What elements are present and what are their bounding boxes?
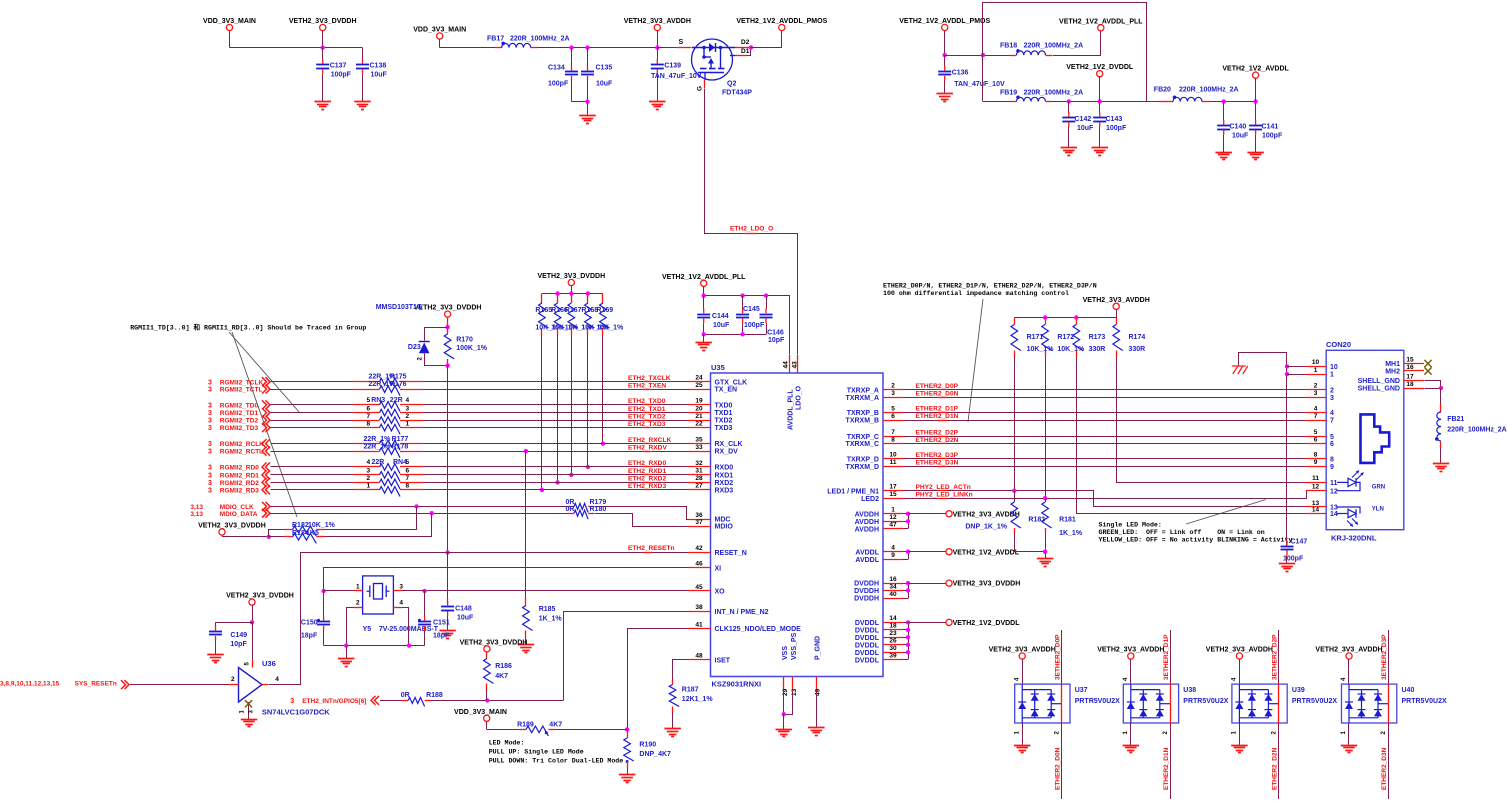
node junction — [1067, 99, 1071, 103]
pin 30 DVDDL — [883, 652, 903, 654]
svg-text:3: 3 — [891, 390, 895, 397]
pin 40 DVDDH — [883, 598, 903, 600]
svg-text:ETHER2_D3N: ETHER2_D3N — [1381, 747, 1388, 790]
svg-text:ETH2_RXD3: ETH2_RXD3 — [628, 483, 666, 490]
svg-text:RGMII1_TD[3..0] 和 RGMII1_RD[3.: RGMII1_TD[3..0] 和 RGMII1_RD[3..0] Should… — [130, 323, 366, 332]
wire — [423, 412, 689, 414]
pin 39 DVDDL — [883, 659, 903, 661]
svg-text:14: 14 — [1312, 506, 1320, 513]
resistor R173 — [1076, 318, 1078, 325]
svg-text:9: 9 — [1314, 459, 1318, 466]
svg-text:2: 2 — [1330, 388, 1334, 395]
resistor R171 — [1014, 318, 1016, 325]
power port VETH2_3V3_DVDDH (reset pullup) — [445, 311, 451, 317]
svg-text:45: 45 — [695, 584, 703, 591]
pin 25 TX_EN — [689, 389, 711, 391]
wire — [538, 47, 658, 49]
pin 6 — [1306, 443, 1326, 445]
svg-text:C148: C148 — [455, 606, 472, 613]
svg-text:RGMII2_RD0: RGMII2_RD0 — [220, 465, 259, 472]
svg-text:3,13: 3,13 — [190, 511, 203, 518]
svg-text:RXD0: RXD0 — [715, 465, 734, 472]
svg-text:220R_100MHz_2A: 220R_100MHz_2A — [1447, 427, 1507, 434]
node junction — [569, 291, 573, 295]
pin 18 DVDDL — [883, 629, 903, 631]
capacitor C151 — [424, 591, 426, 617]
wire PHY2_LED_ACTn — [903, 490, 1014, 492]
svg-text:4K7: 4K7 — [549, 722, 562, 729]
svg-text:8: 8 — [891, 436, 895, 443]
svg-text:3: 3 — [208, 449, 212, 456]
power port VETH2_1V2_AVDDL_PMOS — [779, 24, 785, 30]
svg-text:TXRXP_A: TXRXP_A — [847, 388, 879, 395]
power port VETH2_3V3_DVDDH (R186) — [484, 646, 490, 652]
wire — [271, 482, 354, 484]
resistor R183 DNP — [1014, 491, 1016, 502]
svg-text:VDD_3V3_MAIN: VDD_3V3_MAIN — [413, 27, 466, 34]
svg-text:3: 3 — [1314, 390, 1318, 397]
svg-text:3: 3 — [208, 465, 212, 472]
ground — [776, 729, 793, 731]
wire R174 down to CON pin11 — [1117, 358, 1307, 483]
svg-text:ETHER2_D2P: ETHER2_D2P — [916, 429, 959, 436]
pin 9 — [1306, 466, 1326, 468]
wire ETHER2_D2N — [903, 443, 1306, 445]
power VETH2_3V3_AVDDH — [908, 513, 946, 515]
wire — [1052, 101, 1159, 103]
resistor (RGMII2_RD3) — [380, 487, 400, 497]
ground — [241, 719, 258, 721]
svg-text:RGMII2_RD2: RGMII2_RD2 — [220, 480, 259, 487]
ground — [808, 727, 825, 729]
pin 26 DVDDL — [883, 644, 903, 646]
svg-text:10uF: 10uF — [1077, 125, 1094, 132]
pin 1 — [324, 590, 354, 592]
pin 37 MDIO — [689, 526, 711, 528]
capacitor C142 — [1068, 102, 1070, 113]
pin 13 — [1306, 506, 1326, 508]
wire MDIO_DATA — [271, 513, 569, 515]
svg-text:3ETHER2_D3P: 3ETHER2_D3P — [1381, 634, 1388, 680]
svg-text:PRTR5V0U2X: PRTR5V0U2X — [1402, 698, 1447, 705]
wire con pin10 — [1287, 366, 1306, 368]
svg-text:100pF: 100pF — [331, 72, 352, 79]
wire — [602, 335, 604, 444]
node junction — [1098, 99, 1102, 103]
svg-text:GTX_CLK: GTX_CLK — [715, 379, 748, 386]
pin 1 AVDDH — [883, 513, 903, 515]
svg-text:C135: C135 — [596, 64, 613, 71]
capacitor — [1281, 546, 1294, 548]
capacitor — [317, 621, 330, 623]
wire — [222, 536, 269, 538]
power port VETH2_3V3_AVDDH (U40) — [1346, 653, 1352, 659]
svg-text:100pF: 100pF — [1106, 125, 1127, 132]
ferrite bead FB20 — [1146, 101, 1159, 103]
wire — [325, 507, 417, 530]
pin 12 — [1306, 490, 1326, 492]
svg-text:LED1 / PME_N1: LED1 / PME_N1 — [827, 488, 879, 495]
svg-text:PRTR5V0U2X: PRTR5V0U2X — [1183, 698, 1228, 705]
wire — [1348, 659, 1350, 684]
pin 34 DVDDH — [883, 590, 903, 592]
wire — [555, 729, 627, 731]
pin 10 TXRXP_D — [883, 458, 903, 460]
wire — [423, 381, 689, 383]
capacitor — [1249, 125, 1262, 127]
svg-text:2: 2 — [1314, 383, 1318, 390]
svg-text:100pF: 100pF — [548, 81, 569, 88]
svg-text:KSZ9031RNXI: KSZ9031RNXI — [712, 680, 762, 689]
svg-text:RGMII2_TCTL: RGMII2_TCTL — [220, 387, 263, 394]
svg-text:GREEN_LED: OFF = Link off: GREEN_LED: OFF = Link off ON = Link on — [1099, 529, 1265, 536]
diode array U39 PRTR5V0U2X — [1232, 684, 1287, 723]
svg-text:21: 21 — [695, 413, 703, 420]
svg-text:ETHER2_D3N: ETHER2_D3N — [916, 460, 959, 467]
pin 27 RXD3 — [689, 489, 711, 491]
pin 10 — [1306, 366, 1326, 368]
svg-text:4: 4 — [1330, 410, 1334, 417]
svg-text:4: 4 — [367, 459, 371, 466]
wire — [271, 451, 354, 453]
resistor R181 — [1045, 498, 1047, 502]
capacitor — [418, 621, 431, 623]
svg-text:8: 8 — [406, 482, 410, 489]
svg-text:C137: C137 — [330, 63, 347, 70]
svg-text:S: S — [679, 39, 684, 46]
pin 18 SHELL_GND — [1404, 388, 1424, 390]
wire io line — [1170, 630, 1172, 684]
node junction — [702, 332, 706, 336]
power port VETH2_3V3_DVDDH (u36) — [249, 599, 255, 605]
pin 47 AVDDH — [883, 528, 903, 530]
node junction — [625, 727, 629, 731]
capacitor — [1217, 125, 1230, 127]
svg-text:100pF: 100pF — [1262, 133, 1283, 140]
svg-text:11: 11 — [890, 459, 897, 466]
chassis ground — [1232, 365, 1246, 367]
wire — [230, 47, 363, 49]
pin 9 AVDDL — [883, 559, 903, 561]
wire — [425, 354, 448, 366]
ground — [1231, 745, 1248, 747]
svg-text:R187: R187 — [682, 687, 699, 694]
svg-text:ETH2_TXD0: ETH2_TXD0 — [628, 398, 666, 405]
power port VETH2_1V2_AVDDL_PLL (2) — [701, 280, 707, 286]
wire — [271, 420, 354, 422]
svg-text:9: 9 — [891, 552, 895, 559]
capacitor C149 — [216, 622, 253, 624]
ground — [1247, 152, 1264, 154]
svg-text:48: 48 — [695, 653, 703, 660]
X mark MH2 — [1424, 367, 1431, 374]
power port VETH2_3V3_AVDDH (U39) — [1236, 653, 1242, 659]
pin 14 DVDDL — [883, 622, 903, 624]
svg-text:26: 26 — [889, 638, 897, 645]
svg-text:7: 7 — [367, 413, 371, 420]
svg-text:AVDDL_PLL: AVDDL_PLL — [788, 389, 795, 430]
svg-text:XI: XI — [715, 565, 722, 572]
svg-text:38: 38 — [695, 604, 703, 611]
wire — [271, 404, 354, 406]
ground — [518, 644, 535, 646]
resistor (RGMII2_RCLK) — [380, 440, 400, 450]
wire loop — [425, 328, 448, 341]
svg-text:1: 1 — [367, 482, 371, 489]
svg-text:37: 37 — [695, 519, 703, 526]
svg-text:10: 10 — [1312, 359, 1320, 366]
pin 8 — [1306, 458, 1326, 460]
pin 33 RX_DV — [689, 451, 711, 453]
svg-text:14: 14 — [889, 615, 897, 622]
pin 38 INT_N / PME_N2 — [689, 611, 711, 613]
wire — [362, 74, 364, 102]
pin 3 TXRXM_A — [883, 397, 903, 399]
svg-text:ETHER2_D3P: ETHER2_D3P — [916, 452, 959, 459]
svg-text:R167: R167 — [565, 307, 582, 314]
ground — [354, 101, 371, 103]
resistor R187 — [672, 680, 674, 685]
wire — [571, 81, 573, 102]
svg-text:Single LED Mode:: Single LED Mode: — [1099, 522, 1162, 529]
svg-text:U37: U37 — [1075, 687, 1088, 694]
wire shell gnd — [1425, 381, 1441, 389]
power port VDD_3V3_MAIN (R189) — [484, 715, 490, 721]
svg-text:24: 24 — [695, 375, 703, 382]
svg-text:47: 47 — [889, 522, 897, 529]
ferrite bead FB21 — [1440, 388, 1442, 404]
node junction — [555, 291, 559, 295]
svg-text:3: 3 — [290, 698, 294, 705]
node junction — [422, 589, 426, 593]
svg-text:TXRXP_B: TXRXP_B — [847, 410, 879, 417]
svg-text:TX_EN: TX_EN — [715, 387, 738, 394]
pin 36 MDC — [689, 519, 711, 521]
wire ETHER2_D1P — [903, 412, 1306, 414]
pin 17 SHELL_GND — [1404, 380, 1424, 382]
wire — [657, 48, 659, 60]
wire — [423, 451, 689, 453]
svg-text:3ETHER2_D2P: 3ETHER2_D2P — [1272, 634, 1279, 680]
svg-text:C145: C145 — [743, 306, 760, 313]
svg-text:C134: C134 — [548, 64, 565, 71]
resistor (RGMII2_RD2) — [380, 479, 400, 489]
svg-text:4: 4 — [275, 676, 279, 683]
svg-text:VETH2_3V3_AVDDH: VETH2_3V3_AVDDH — [1083, 297, 1150, 304]
svg-text:PULL UP: Single LED Mode: PULL UP: Single LED Mode — [489, 749, 584, 756]
svg-text:6: 6 — [406, 467, 410, 474]
svg-text:VETH2_1V2_AVDDL_PLL: VETH2_1V2_AVDDL_PLL — [662, 274, 746, 281]
svg-text:MDIO_DATA: MDIO_DATA — [220, 511, 258, 518]
resistor R167 — [571, 294, 573, 304]
svg-text:P_GND: P_GND — [815, 636, 822, 660]
svg-text:VETH2_1V2_AVDDL: VETH2_1V2_AVDDL — [1222, 66, 1289, 73]
svg-text:1K5: 1K5 — [306, 530, 319, 537]
resistor (RGMII2_TD3) — [380, 424, 400, 434]
svg-text:2: 2 — [891, 383, 895, 390]
svg-text:2: 2 — [367, 475, 371, 482]
wire XO row — [425, 590, 689, 592]
wire — [1210, 101, 1256, 103]
svg-text:40: 40 — [889, 591, 897, 598]
svg-text:ETHER2_D0N: ETHER2_D0N — [916, 391, 959, 398]
svg-text:DVDDH: DVDDH — [854, 596, 879, 603]
pin 20 TXD1 — [689, 412, 711, 414]
svg-text:GRN: GRN — [1372, 485, 1385, 491]
svg-text:R172: R172 — [1057, 334, 1074, 341]
node junction — [555, 480, 559, 484]
power port VETH2_1V2_AVDDL_PLL — [1098, 25, 1104, 31]
pin 19 TXD0 — [689, 404, 711, 406]
wire output — [262, 684, 268, 686]
svg-text:18: 18 — [889, 623, 897, 630]
resistor R184 — [269, 536, 285, 538]
power VETH2_1V2_DVDDL — [908, 622, 946, 624]
pin 15 LED2 — [883, 498, 903, 500]
wire — [423, 389, 689, 391]
svg-text:MH2: MH2 — [1385, 369, 1400, 376]
svg-text:PULL DOWN: Tri Color Dual-LED: PULL DOWN: Tri Color Dual-LED Mode — [489, 758, 624, 765]
svg-text:3: 3 — [399, 583, 403, 590]
svg-text:YLN: YLN — [1372, 507, 1384, 513]
power port VETH2_3V3_AVDDH — [654, 24, 660, 30]
svg-text:TXD3: TXD3 — [715, 425, 733, 432]
resistor (RGMII2_TCLK) — [380, 378, 400, 388]
wire — [423, 427, 689, 429]
op-amp U36 SN74LVC1G07DCK — [239, 668, 263, 703]
ferrite bead FB19 — [1010, 101, 1017, 103]
wire — [1014, 551, 1045, 553]
wire rail — [1014, 317, 1116, 319]
svg-text:VETH2_1V2_DVDDL: VETH2_1V2_DVDDL — [1066, 64, 1134, 71]
svg-text:42: 42 — [695, 545, 703, 552]
ground — [1014, 745, 1030, 747]
svg-text:100 ohm differential impedance: 100 ohm differential impedance matching … — [883, 290, 1069, 297]
node junction — [540, 488, 544, 492]
svg-text:220R_100MHz_2A: 220R_100MHz_2A — [510, 36, 570, 43]
pin 24 GTX_CLK — [689, 381, 711, 383]
svg-text:VETH2_1V2_AVDDL_PMOS: VETH2_1V2_AVDDL_PMOS — [736, 18, 827, 25]
svg-text:ETH2_RXDV: ETH2_RXDV — [628, 444, 667, 451]
svg-text:C139: C139 — [664, 63, 681, 70]
ground — [579, 115, 596, 117]
svg-text:VETH2_3V3_DVDDH: VETH2_3V3_DVDDH — [289, 18, 357, 25]
svg-text:VETH2_3V3_AVDDH: VETH2_3V3_AVDDH — [1206, 647, 1273, 654]
svg-text:10: 10 — [889, 452, 897, 459]
svg-text:3ETHER2_D1P: 3ETHER2_D1P — [1163, 634, 1170, 680]
wire — [271, 389, 354, 391]
resistor R180 0R — [568, 513, 574, 515]
power port VETH2_3V3_AVDDH (U37) — [1019, 653, 1025, 659]
svg-text:17: 17 — [1406, 373, 1414, 380]
wire — [322, 31, 324, 48]
svg-text:11: 11 — [1312, 475, 1319, 482]
svg-text:22: 22 — [695, 420, 703, 427]
svg-text:SHELL_GND: SHELL_GND — [1358, 378, 1400, 385]
ground — [936, 93, 953, 95]
svg-text:U36: U36 — [262, 659, 276, 668]
svg-text:VETH2_3V3_DVDDH: VETH2_3V3_DVDDH — [460, 639, 528, 646]
wire — [431, 700, 563, 702]
wire ETHER2_D0P — [903, 389, 1306, 391]
power port VETH2_1V2_AVDDL — [1253, 72, 1259, 78]
diode D23 MMSD103T1G — [419, 341, 430, 343]
svg-text:VSS_PS: VSS_PS — [791, 632, 798, 660]
op-amp U35 KSZ9031RNXI body — [711, 373, 884, 677]
pin 11 TXRXM_D — [883, 466, 903, 468]
svg-text:41: 41 — [695, 621, 703, 628]
pin 1 — [1306, 374, 1326, 376]
svg-text:28: 28 — [695, 475, 703, 482]
node junction — [601, 441, 605, 445]
svg-text:RGMII2_RCTL: RGMII2_RCTL — [220, 449, 263, 456]
svg-text:330R: 330R — [1129, 346, 1146, 353]
svg-text:RGMII2_TCLK: RGMII2_TCLK — [220, 379, 264, 386]
wire — [325, 514, 432, 537]
svg-text:2: 2 — [406, 413, 410, 420]
capacitor C141 — [1255, 102, 1257, 121]
svg-text:20: 20 — [695, 405, 703, 412]
resistor (RGMII2_TD2) — [380, 417, 400, 427]
svg-text:Q2: Q2 — [727, 81, 736, 88]
node junction — [344, 643, 348, 647]
pin 3 — [393, 590, 402, 592]
svg-text:DVDDL: DVDDL — [855, 650, 880, 657]
svg-text:DVDDL: DVDDL — [855, 642, 880, 649]
svg-text:3: 3 — [208, 441, 212, 448]
ground — [314, 101, 331, 103]
pin 35 RX_CLK — [689, 443, 711, 445]
resistor R189 — [487, 729, 520, 731]
capacitor — [565, 71, 578, 73]
svg-text:10uF: 10uF — [596, 81, 613, 88]
node junction — [586, 465, 590, 469]
svg-text:AVDDL: AVDDL — [855, 549, 879, 556]
svg-text:TXRXM_A: TXRXM_A — [846, 395, 879, 402]
wire — [271, 412, 354, 414]
svg-text:TXRXP_C: TXRXP_C — [847, 434, 879, 441]
svg-text:ETH2_TXD2: ETH2_TXD2 — [628, 413, 666, 420]
pin 22 TXD3 — [689, 427, 711, 429]
svg-text:10uF: 10uF — [371, 72, 388, 79]
svg-text:R186: R186 — [495, 663, 512, 670]
pin 32 RXD0 — [689, 466, 711, 468]
svg-text:12: 12 — [1330, 488, 1338, 495]
pin 48 ISET — [689, 659, 711, 661]
pin 49 P_GND — [816, 677, 818, 691]
svg-text:C144: C144 — [712, 313, 729, 320]
wire — [269, 530, 285, 537]
svg-text:VETH2_1V2_AVDDL_PMOS: VETH2_1V2_AVDDL_PMOS — [899, 18, 990, 25]
pin 6 TXRXM_B — [883, 420, 903, 422]
wire ETHER2_D3P — [903, 458, 1306, 460]
pin 2 TXRXP_A — [883, 389, 903, 391]
node junction — [569, 473, 573, 477]
wire — [945, 55, 1010, 57]
svg-text:3: 3 — [208, 387, 212, 394]
pin 2 — [354, 607, 363, 609]
svg-text:1: 1 — [406, 420, 410, 427]
power port VETH2_3V3_DVDDH (pullups) — [568, 279, 574, 285]
power VETH2_3V3_DVDDH — [908, 583, 946, 585]
ground — [1433, 463, 1450, 465]
svg-text:R178: R178 — [392, 443, 409, 450]
pin 5 — [1306, 436, 1326, 438]
svg-text:RX_DV: RX_DV — [715, 449, 739, 456]
wire — [271, 489, 354, 491]
svg-text:22R: 22R — [372, 459, 385, 466]
svg-text:RGMII2_TD1: RGMII2_TD1 — [220, 410, 259, 417]
